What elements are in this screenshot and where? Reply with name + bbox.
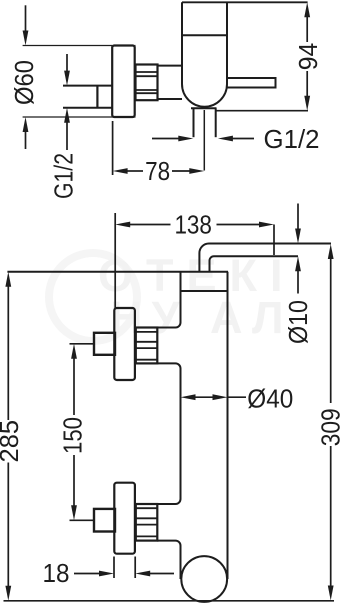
svg-text:Ø10: Ø10 [283, 300, 313, 344]
svg-text:94: 94 [293, 43, 323, 71]
svg-text:G1/2: G1/2 [49, 153, 79, 199]
svg-text:309: 309 [316, 408, 341, 446]
svg-text:Ø60: Ø60 [9, 60, 39, 105]
svg-text:НУ АЛ: НУ АЛ [110, 292, 293, 343]
svg-text:Ø40: Ø40 [247, 384, 293, 414]
svg-text:18: 18 [43, 558, 70, 588]
svg-text:138: 138 [174, 210, 212, 240]
svg-text:G1/2: G1/2 [264, 124, 320, 154]
svg-text:78: 78 [145, 156, 170, 186]
svg-text:285: 285 [0, 420, 24, 463]
svg-text:150: 150 [58, 417, 88, 454]
